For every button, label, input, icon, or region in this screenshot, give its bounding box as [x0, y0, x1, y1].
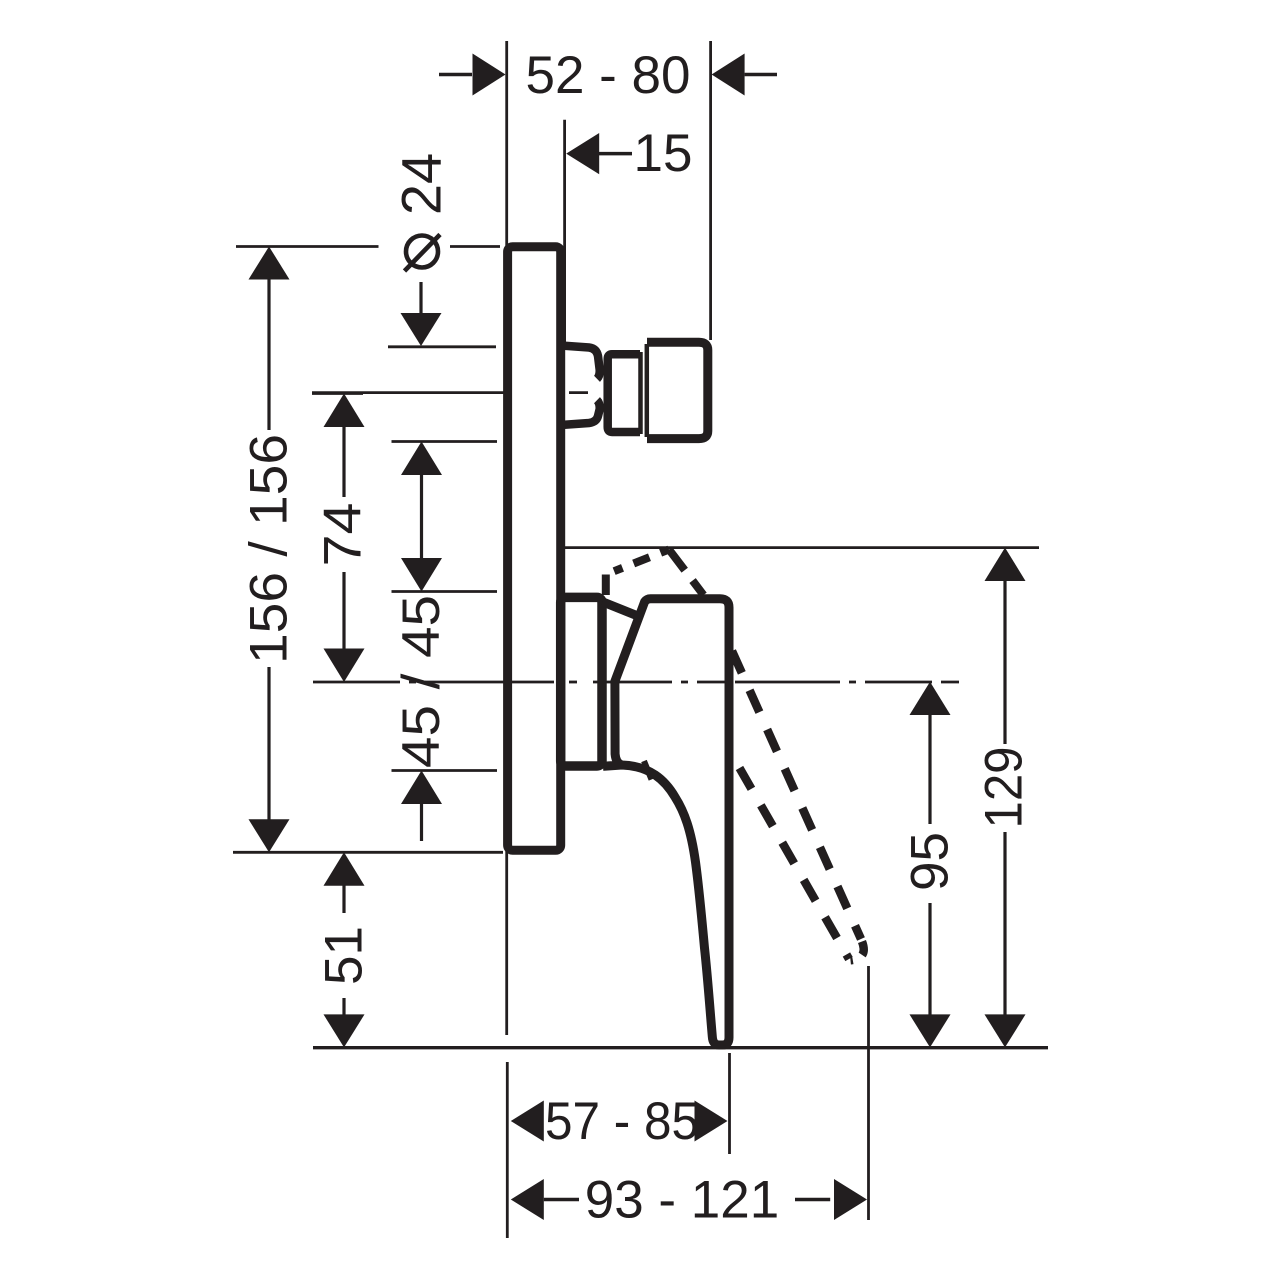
dimension 51	[324, 852, 365, 1047]
svg-text:51: 51	[315, 926, 374, 985]
parting tick on lever	[644, 761, 652, 780]
dimension 52-80	[439, 54, 777, 96]
dimension 156/156	[233, 247, 503, 853]
svg-text:129: 129	[975, 747, 1034, 829]
svg-text:156 / 156: 156 / 156	[240, 434, 299, 664]
dimension 95	[910, 682, 951, 1048]
svg-text:57 - 85: 57 - 85	[545, 1092, 699, 1151]
handle body and lever fill	[615, 599, 729, 1045]
handle heel connector	[603, 602, 642, 618]
spout end cap	[647, 342, 708, 438]
spout neck upper edge	[561, 346, 600, 379]
extension dashed lever tip	[867, 966, 870, 1220]
spout neck lower edge	[561, 400, 600, 425]
dimension dia 24	[388, 282, 496, 347]
svg-text:15: 15	[634, 124, 693, 183]
svg-text:24: 24	[390, 153, 453, 215]
extension line 52-80 right	[709, 41, 712, 340]
wall line	[505, 41, 508, 1035]
extension below baseline mid (lever tip)	[728, 1053, 731, 1154]
dimension 93-121	[511, 1179, 867, 1220]
escutcheon plate	[508, 247, 561, 851]
svg-text:93 - 121: 93 - 121	[585, 1171, 779, 1230]
extension line 15	[563, 120, 566, 345]
baseline	[313, 1046, 1048, 1049]
dimension 129	[564, 548, 1039, 1048]
svg-text:52 - 80: 52 - 80	[525, 46, 690, 105]
valve sleeve	[561, 597, 602, 766]
handle body and lever outline	[603, 599, 729, 1045]
dashed handle up position	[602, 575, 610, 596]
dimension 15	[566, 133, 632, 174]
spout ring	[608, 354, 640, 432]
dimension 74	[312, 394, 365, 683]
dimension 45/45	[392, 442, 498, 842]
svg-text:95: 95	[901, 832, 960, 891]
extension below baseline left	[506, 1062, 509, 1238]
dashed lever open position	[732, 651, 861, 939]
centerline spout axis	[312, 391, 554, 394]
label dia 24	[406, 236, 438, 268]
svg-text:74: 74	[314, 503, 373, 567]
centerline main axis segments	[313, 681, 959, 684]
dimension 57-85	[511, 1101, 728, 1142]
